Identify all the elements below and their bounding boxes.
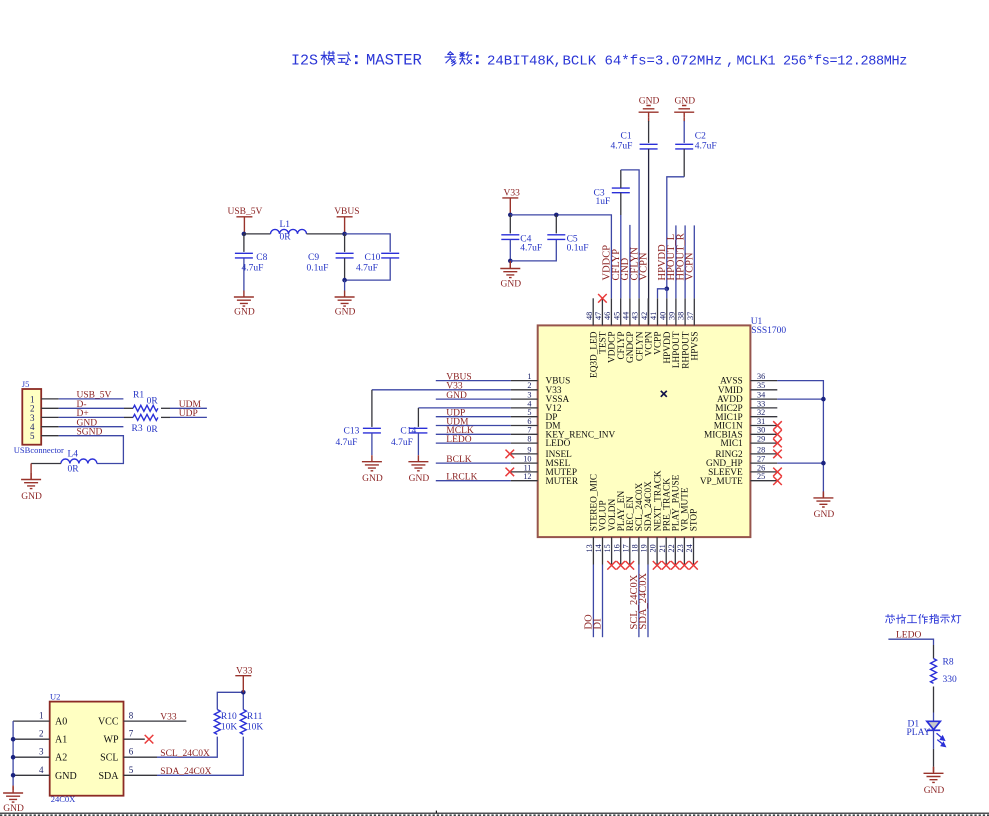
- svg-text:MCLK1 256*fs=12.288MHz: MCLK1 256*fs=12.288MHz: [737, 55, 908, 70]
- svg-text:GND: GND: [409, 474, 430, 484]
- no-connect X pin 24: [689, 561, 698, 570]
- svg-text:SDA_24C0X: SDA_24C0X: [638, 572, 649, 629]
- svg-text:38: 38: [677, 312, 686, 320]
- junction C5 tap: [554, 213, 559, 218]
- resistor R3: [133, 414, 158, 420]
- no-connect X pin 11: [506, 468, 515, 477]
- label hanzi zuo: [919, 614, 928, 623]
- wire net UDM to pin 6: [436, 425, 511, 427]
- pin 9 INSEL stub: [511, 453, 538, 455]
- wire USB_5V node down to C8: [243, 234, 245, 252]
- svg-text:VCC: VCC: [98, 717, 119, 728]
- wire net DO pin 13: [592, 565, 594, 638]
- svg-text:8: 8: [129, 711, 134, 721]
- svg-text:R10: R10: [221, 712, 237, 722]
- svg-text:L4: L4: [68, 450, 79, 460]
- svg-text:4.7uF: 4.7uF: [242, 263, 264, 273]
- title hanzi shu: [460, 52, 472, 64]
- svg-text:C14: C14: [400, 426, 416, 436]
- svg-text:46: 46: [603, 312, 612, 320]
- resistor R1: [133, 405, 158, 411]
- ground symbol LED: [933, 767, 935, 772]
- svg-text:USB_5V: USB_5V: [228, 207, 263, 217]
- svg-text:6: 6: [129, 747, 134, 757]
- svg-text:VCPN: VCPN: [639, 252, 650, 280]
- label hanzi shi: [940, 615, 949, 623]
- pin 20 NEXT_TRACK stub: [656, 537, 658, 564]
- wire gnd node down: [509, 261, 511, 268]
- svg-text:30: 30: [757, 426, 765, 435]
- pin 11 MUTEP stub: [511, 471, 538, 473]
- pin 43 CFLYN stub: [638, 298, 640, 325]
- pin 3 A2 wire: [13, 756, 50, 758]
- wire C3 top to pin 43 route: [620, 170, 622, 188]
- svg-text:MASTER: MASTER: [366, 52, 422, 70]
- svg-text:,: ,: [554, 54, 562, 70]
- pin 29 MIC1 stub: [750, 442, 777, 444]
- capacitor C14: [409, 428, 427, 433]
- pin 36 AVSS stub: [750, 380, 777, 382]
- pin 5 SDA wire: [124, 774, 158, 776]
- svg-text:I2S: I2S: [291, 53, 318, 70]
- resistor R11: [240, 710, 246, 735]
- no-connect X pin 9: [506, 450, 515, 459]
- capacitor C8: [235, 253, 253, 258]
- svg-text:10K: 10K: [247, 723, 264, 733]
- no-connect X pin 20: [653, 561, 662, 570]
- ground symbol right rail: [822, 493, 824, 497]
- no-connect X pin 29: [773, 439, 782, 448]
- svg-text:GND: GND: [446, 391, 467, 401]
- svg-text:0.1uF: 0.1uF: [567, 243, 589, 253]
- wire pin 38 dangling: [684, 225, 686, 298]
- svg-text:29: 29: [757, 435, 765, 444]
- title text I2S mode line: [291, 51, 907, 69]
- wire pin2 V33 down to C13: [371, 390, 373, 427]
- pin 13 STEREO_MIC stub: [592, 537, 594, 564]
- wire R3 to UDP: [161, 416, 170, 418]
- svg-text:0R: 0R: [147, 396, 159, 406]
- wire R10 top to V33 rail: [217, 692, 243, 709]
- capacitor C9: [336, 253, 354, 258]
- svg-text:0R: 0R: [68, 464, 80, 474]
- svg-text:36: 36: [757, 372, 765, 381]
- svg-text:4.7uF: 4.7uF: [336, 438, 358, 448]
- svg-text:4: 4: [39, 765, 44, 775]
- pin 38 RHPOUT stub: [684, 298, 686, 325]
- wire J5 pin4 GND: [41, 426, 59, 428]
- wire net SCL_24C0X pin 18: [638, 565, 640, 638]
- svg-text:4.7uF: 4.7uF: [520, 243, 542, 253]
- wire pin 27 GND_HP to gnd rail: [777, 462, 823, 464]
- pin 33 MIC2P stub: [750, 407, 777, 409]
- pin 7 KEY_RENC_INV stub: [511, 433, 538, 435]
- pin 34 AVDD stub: [750, 398, 777, 400]
- power port USB_5V: [228, 207, 263, 234]
- svg-text:GND: GND: [234, 307, 255, 317]
- power port V33 at U2: [235, 666, 252, 692]
- svg-text:19: 19: [640, 544, 649, 552]
- wire J5 pin3 D+: [41, 416, 59, 418]
- pin 24 STOP stub: [693, 537, 695, 564]
- power port V33 top: [502, 189, 520, 215]
- wire LED to GND: [933, 730, 935, 749]
- svg-text:LRCLK: LRCLK: [446, 473, 477, 483]
- wire down to GND from C9 node: [344, 280, 346, 290]
- wire pin 37 dangling: [693, 225, 695, 298]
- svg-text:13: 13: [585, 544, 594, 552]
- svg-text:V33: V33: [236, 666, 253, 676]
- pin 26 SLEEVE stub: [750, 471, 777, 473]
- ground flag above C2: [674, 96, 695, 121]
- svg-text:GND: GND: [55, 771, 77, 782]
- pin 27 GND_HP stub: [750, 462, 777, 464]
- svg-text:11: 11: [524, 463, 532, 472]
- label hanzi zhi: [930, 614, 939, 623]
- wire V33 node down to C4: [509, 215, 511, 234]
- wire GND to C1: [648, 121, 650, 143]
- junction AVDD rail: [821, 397, 826, 402]
- svg-text:LEDO: LEDO: [446, 435, 471, 445]
- pin 2 A1 wire: [13, 738, 50, 740]
- svg-text:9: 9: [527, 445, 531, 454]
- pin 44 GNDCP stub: [629, 298, 631, 325]
- no-connect X pin 28: [773, 450, 782, 459]
- svg-text:GND: GND: [501, 279, 522, 289]
- svg-text:C9: C9: [308, 253, 319, 263]
- svg-text:44: 44: [622, 312, 631, 320]
- wire R11 top to V33 rail: [242, 692, 244, 709]
- capacitor C5: [547, 235, 565, 240]
- svg-text:SCL_24C0X: SCL_24C0X: [160, 749, 210, 759]
- svg-text:C10: C10: [365, 253, 381, 263]
- svg-text:7: 7: [129, 729, 134, 739]
- border dashed line: [0, 814, 989, 816]
- capacitor C10: [381, 253, 399, 258]
- pin 12 MUTER stub: [511, 480, 538, 482]
- svg-text:A2: A2: [55, 753, 67, 764]
- svg-text:45: 45: [612, 312, 621, 320]
- junction C4 bottom node: [508, 259, 513, 264]
- svg-text:GND: GND: [335, 307, 356, 317]
- svg-text:48: 48: [585, 312, 594, 320]
- pin 25 VP_MUTE stub: [750, 480, 777, 482]
- svg-text:20: 20: [649, 544, 658, 552]
- wire net SDA_24C0X pin 19: [647, 565, 649, 638]
- border tick mark: [435, 811, 437, 814]
- ground symbol under C4/C5: [500, 262, 520, 278]
- pin 1 A0 wire: [13, 720, 50, 722]
- pin 2 V33 stub: [511, 389, 538, 391]
- pin 23 VR_MUTE stub: [683, 537, 685, 564]
- no-connect X pin 47: [598, 294, 607, 303]
- svg-text:0R: 0R: [280, 233, 292, 243]
- title hanzi shi: [338, 52, 351, 64]
- svg-text:V33: V33: [160, 713, 177, 723]
- wire net UDP to pin 5: [436, 416, 511, 418]
- svg-text:SDA: SDA: [98, 771, 119, 782]
- svg-text:L1: L1: [280, 220, 291, 230]
- wire R1 to UDM: [161, 407, 170, 409]
- svg-text:1uF: 1uF: [596, 197, 611, 207]
- no-connect X pin 23: [680, 561, 689, 570]
- wire J5 pin5 SGND: [41, 435, 59, 437]
- svg-text:16: 16: [612, 544, 621, 552]
- pin 4 V12 stub: [511, 407, 538, 409]
- no-connect X pin 22: [671, 561, 680, 570]
- svg-text:0R: 0R: [147, 425, 159, 435]
- wire L4 to GND corner: [31, 463, 61, 465]
- svg-text:24C0X: 24C0X: [51, 794, 76, 804]
- svg-text:5: 5: [30, 431, 35, 441]
- svg-text:4.7uF: 4.7uF: [611, 142, 633, 152]
- junction V33 rail U2: [241, 690, 246, 695]
- pin 30 MICBIAS stub: [750, 433, 777, 435]
- pin 10 MSEL stub: [511, 462, 538, 464]
- svg-text:330: 330: [943, 675, 958, 685]
- svg-text:SSS1700: SSS1700: [751, 326, 786, 336]
- svg-text:10K: 10K: [221, 723, 238, 733]
- svg-text:40: 40: [658, 312, 667, 320]
- svg-text:MIC1: MIC1: [720, 439, 743, 449]
- svg-text:5: 5: [527, 408, 531, 417]
- inductor L1: [271, 229, 307, 234]
- pin 48 EQ3D_LED stub: [592, 298, 594, 325]
- svg-text:25: 25: [757, 472, 765, 481]
- svg-text:A1: A1: [55, 735, 67, 746]
- wire VBUS node down to C9: [344, 234, 346, 252]
- svg-text:SCL: SCL: [100, 753, 118, 764]
- svg-text:2: 2: [39, 729, 44, 739]
- capacitor C4: [501, 235, 519, 240]
- pin 16 PLAY_EN stub: [620, 537, 622, 564]
- ground symbol USB shield: [21, 473, 41, 489]
- label hanzi deng: [952, 615, 961, 623]
- connector J5 body: [22, 389, 41, 445]
- svg-text:VP_MUTE: VP_MUTE: [700, 477, 743, 487]
- no-connect X pin 31: [773, 421, 782, 430]
- wire pin4 V12 down to C14: [417, 408, 419, 427]
- wire junction to pin 40: [666, 289, 668, 299]
- LED D1 arrows: [937, 733, 946, 746]
- svg-text:4.7uF: 4.7uF: [391, 438, 413, 448]
- capacitor C3: [612, 188, 630, 193]
- junction U2 pin2: [11, 737, 16, 742]
- wire C1 bottom to pin 42: [648, 149, 650, 326]
- svg-text:6: 6: [527, 417, 531, 426]
- pin 47 TEST stub: [601, 298, 603, 325]
- capacitor C2: [675, 144, 693, 149]
- pin 22 PLAY_PAUSE stub: [674, 537, 676, 564]
- svg-text:5: 5: [129, 765, 134, 775]
- pin 5 DP stub: [511, 416, 538, 418]
- svg-text:V33: V33: [504, 189, 521, 199]
- svg-text:32: 32: [757, 408, 765, 417]
- junction U2 pin4: [11, 773, 16, 778]
- junction USB_5V node: [242, 232, 247, 237]
- svg-text:PLAY: PLAY: [907, 728, 931, 738]
- svg-text:WP: WP: [104, 735, 119, 746]
- wire GND to C2: [683, 121, 685, 143]
- junction VBUS node: [342, 232, 347, 237]
- svg-text:4.7uF: 4.7uF: [695, 142, 717, 152]
- svg-text:VBUS: VBUS: [334, 207, 359, 217]
- wire net LEDO to pin 8: [436, 442, 511, 444]
- wire net GND to pin 3: [436, 398, 511, 400]
- wire pin 39 dangling: [675, 225, 677, 298]
- wire net BCLK to pin 10: [436, 462, 511, 464]
- pin 46 VDDCP stub: [610, 298, 612, 325]
- svg-text:17: 17: [621, 544, 630, 552]
- no-connect X pin 17: [626, 561, 635, 570]
- pin 21 PRE_TRACK stub: [665, 537, 667, 564]
- resistor R10: [214, 710, 220, 735]
- pin 3 VSSA stub: [511, 398, 538, 400]
- wire pin 34 AVDD to gnd rail: [777, 398, 823, 400]
- svg-text:C2: C2: [695, 131, 706, 141]
- svg-text:GND: GND: [924, 786, 945, 796]
- svg-text:22: 22: [667, 544, 676, 552]
- no-connect X pin 7 U2: [145, 735, 154, 744]
- svg-text:UDP: UDP: [179, 409, 198, 419]
- IC U2 body: [50, 702, 124, 796]
- wire net VBUS to pin 1: [436, 380, 511, 382]
- wire VBUS node to C10 top: [345, 234, 391, 252]
- pin 35 VMID stub: [750, 389, 777, 391]
- capacitor C1: [640, 144, 658, 149]
- svg-text:R11: R11: [247, 712, 263, 722]
- svg-text:31: 31: [757, 417, 765, 426]
- wire bottom rail to C5: [510, 239, 556, 261]
- svg-text:8: 8: [527, 435, 531, 444]
- svg-text:34: 34: [757, 391, 765, 400]
- wire R8 to LED: [933, 687, 935, 713]
- svg-text:MUTER: MUTER: [546, 477, 579, 487]
- svg-text:23: 23: [676, 544, 685, 552]
- pin 28 RING2 stub: [750, 453, 777, 455]
- no-connect X pin 25: [773, 476, 782, 485]
- wire C2 bottom jog to HPVDD rail: [683, 149, 685, 177]
- ground symbol under C8: [234, 291, 254, 307]
- no-connect X pin 16: [616, 561, 625, 570]
- pin 15 VOLDN stub: [611, 537, 613, 564]
- pin 32 MIC1P stub: [750, 416, 777, 418]
- svg-text:12: 12: [523, 472, 531, 481]
- junction C9 bottom node: [342, 278, 347, 283]
- svg-text:0.1uF: 0.1uF: [307, 263, 329, 273]
- svg-text:STOP: STOP: [690, 509, 700, 532]
- wire C13 bottom to GND: [371, 433, 373, 455]
- svg-text:18: 18: [631, 544, 640, 552]
- svg-text:28: 28: [757, 445, 765, 454]
- pin 37 HPVSS stub: [693, 298, 695, 325]
- pin 41 VCPP stub: [657, 298, 659, 325]
- wire C5 top stub: [555, 215, 557, 234]
- wire C8 bottom to GND: [243, 258, 245, 290]
- pin 42 VCPN stub: [647, 298, 649, 325]
- pin 19 SDA_24C0X stub: [647, 537, 649, 564]
- wire net LRCLK to pin 12: [436, 480, 511, 482]
- svg-text:15: 15: [603, 544, 612, 552]
- wire C9 bottom stub: [344, 258, 346, 280]
- wire V33 rail to pin 46: [510, 215, 611, 298]
- wire net DI pin 14: [602, 565, 604, 638]
- wire USB_5V to L1: [244, 233, 271, 235]
- LED D1: [927, 721, 940, 730]
- wire U2 left bus: [12, 721, 14, 785]
- svg-text:GND: GND: [362, 474, 383, 484]
- wire L1 to VBUS node: [307, 233, 345, 235]
- svg-text:43: 43: [631, 312, 640, 320]
- svg-text:BCLK 64*fs=3.072MHz: BCLK 64*fs=3.072MHz: [563, 54, 723, 70]
- op-amp U1 body: [538, 325, 751, 537]
- svg-text:USBconnector: USBconnector: [14, 445, 64, 455]
- svg-text:C8: C8: [256, 253, 267, 263]
- pin 6 SCL wire: [124, 756, 158, 758]
- svg-text:33: 33: [757, 399, 765, 408]
- pin 45 CFLYP stub: [620, 298, 622, 325]
- svg-text:4: 4: [527, 399, 531, 408]
- junction U2 pin3: [11, 755, 16, 760]
- inductor L4: [61, 459, 97, 464]
- svg-text:R1: R1: [133, 391, 144, 401]
- svg-text:24BIT48K: 24BIT48K: [487, 54, 555, 70]
- wire pin 44 dangling: [629, 225, 631, 298]
- power port VBUS: [334, 207, 359, 234]
- svg-text:GND: GND: [3, 804, 24, 814]
- border solid line: [0, 812, 989, 814]
- ground flag above C1: [639, 96, 660, 121]
- svg-text:J5: J5: [22, 379, 30, 389]
- no-connect X pin 30: [773, 430, 782, 439]
- svg-text:A0: A0: [55, 717, 67, 728]
- svg-text:GND: GND: [21, 492, 42, 502]
- pin 17 REC_EN stub: [629, 537, 631, 564]
- svg-text:1: 1: [39, 711, 44, 721]
- svg-text:10: 10: [523, 455, 531, 464]
- svg-text:42: 42: [640, 312, 649, 320]
- pin 6 DM stub: [511, 425, 538, 427]
- capacitor C13: [363, 428, 381, 433]
- svg-text:SDA_24C0X: SDA_24C0X: [160, 767, 211, 777]
- title hanzi can: [445, 52, 456, 66]
- wire C14 bottom to GND: [417, 433, 419, 455]
- pin 14 VOLUP stub: [602, 537, 604, 564]
- wire down to ground: [30, 464, 32, 480]
- svg-text:SGND: SGND: [77, 428, 103, 438]
- wire net V33 to pin 2: [372, 389, 511, 391]
- pin 31 MIC1N stub: [750, 425, 777, 427]
- label hanzi pian: [896, 614, 905, 623]
- label hanzi gong: [907, 615, 916, 622]
- svg-text:7: 7: [527, 426, 531, 435]
- svg-text:VCPN: VCPN: [685, 252, 696, 280]
- svg-text:24: 24: [685, 544, 694, 552]
- wire junction to pin 41: [658, 289, 667, 299]
- ground symbol under C14: [408, 455, 428, 471]
- no-connect X pin 21: [662, 561, 671, 570]
- svg-text:R8: R8: [943, 658, 954, 668]
- svg-text:14: 14: [594, 544, 603, 552]
- svg-text:2: 2: [527, 381, 531, 390]
- svg-text:4.7uF: 4.7uF: [356, 263, 378, 273]
- svg-text:27: 27: [757, 455, 765, 464]
- no-connect X pin 26: [773, 468, 782, 477]
- svg-text:21: 21: [658, 544, 667, 552]
- label chip working indicator hanzi xin: [886, 614, 895, 623]
- svg-text:,: ,: [726, 54, 734, 70]
- pin 7 WP wire: [124, 738, 145, 740]
